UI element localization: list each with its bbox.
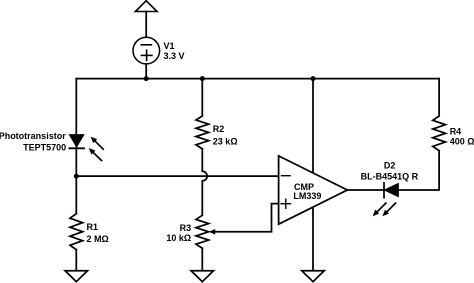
label CMP LM339 (293, 182, 321, 201)
junction dot V1-rail (144, 76, 149, 81)
svg-text:Phototransistor: Phototransistor (0, 131, 66, 141)
label Phototransistor TEPT5700 (0, 131, 66, 153)
svg-text:10 kΩ: 10 kΩ (166, 233, 191, 243)
wire V1 to rail (145, 64, 147, 79)
wire comparator power (312, 79, 314, 271)
resistor R2 (196, 116, 209, 149)
wire VCC to V1 (145, 11, 147, 37)
wire node A to R1 (75, 176, 77, 214)
minus input sign (281, 175, 291, 177)
wire D2 to R4 (398, 151, 439, 190)
svg-text:R4: R4 (450, 127, 462, 137)
junction dot comparator V+ (311, 76, 316, 81)
wire R3 wiper to plus input (213, 204, 279, 232)
voltage source V1 (133, 37, 160, 64)
phototransistor Q1 TEPT5700 (69, 135, 103, 161)
wire node A to comparator minus input (76, 175, 278, 177)
LED D2 (373, 183, 398, 216)
svg-text:R3: R3 (180, 223, 192, 233)
power symbol VCC (135, 1, 157, 12)
svg-text:D2: D2 (384, 161, 396, 171)
svg-text:400 Ω: 400 Ω (450, 137, 474, 147)
wire R2 to R3 (hop over node A wire) (202, 149, 207, 215)
resistor R1 (70, 214, 83, 250)
label R4 400 Ω (450, 127, 474, 147)
wire R3 to ground (201, 248, 203, 270)
plus input sign (280, 198, 291, 209)
ground (R3) (191, 271, 213, 282)
label V1 3.3 V (164, 41, 185, 61)
ground (comparator) (302, 271, 324, 282)
svg-text:2 MΩ: 2 MΩ (87, 234, 109, 244)
svg-text:R2: R2 (213, 124, 225, 134)
svg-text:23 kΩ: 23 kΩ (213, 137, 238, 147)
wire rail to R2 (201, 79, 203, 116)
svg-text:V1: V1 (164, 41, 175, 51)
svg-text:R1: R1 (87, 222, 99, 232)
ground (R1) (65, 271, 87, 282)
junction dot R2-rail (200, 76, 205, 81)
label R1 2 MΩ (87, 222, 109, 244)
wire R4 to rail (438, 79, 440, 116)
resistor R4 (433, 116, 446, 151)
svg-text:TEPT5700: TEPT5700 (23, 142, 66, 152)
svg-text:3.3 V: 3.3 V (164, 51, 185, 61)
label R2 23 kΩ (213, 124, 238, 146)
wire output to D2 (347, 189, 384, 191)
wire top rail (76, 78, 439, 80)
potentiometer R3 (196, 215, 215, 248)
wire rail to phototransistor (75, 79, 77, 135)
wire R1 to ground (75, 250, 77, 271)
svg-text:LM339: LM339 (293, 191, 321, 201)
label R3 10 kΩ (166, 223, 191, 243)
wire phototransistor to node A (75, 135, 77, 176)
label D2 BL-B4541Q R (361, 161, 419, 182)
op-amp U1 CMP LM339 (279, 156, 348, 224)
junction dot node A (74, 174, 79, 179)
svg-text:BL-B4541Q R: BL-B4541Q R (361, 171, 419, 181)
